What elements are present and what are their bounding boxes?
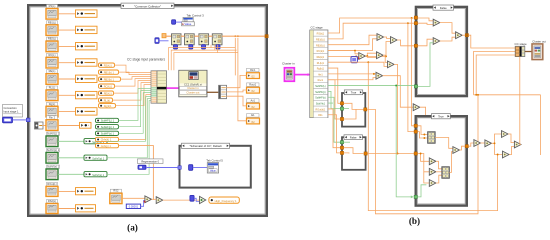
svg-text:RL(k)1: RL(k)1 bbox=[317, 62, 325, 65]
wire T5 up to CC bundle row3 bbox=[520, 57, 521, 145]
wire RS2 to compare bbox=[122, 197, 145, 199]
path constant node SubVI(s) 1 bbox=[84, 172, 107, 177]
terminal tab ctl bbox=[172, 20, 176, 24]
numeric control ROut(L) bbox=[47, 182, 58, 185]
boolean constant High_Frequency 1 bbox=[209, 197, 239, 203]
mult node D bbox=[377, 52, 384, 59]
conversion node row 3 bbox=[76, 43, 98, 50]
wire L2 out to add node bbox=[449, 152, 453, 173]
wire constant to compare bbox=[141, 200, 145, 206]
main orange wire to right edge tunnel bbox=[222, 35, 265, 37]
green wire inside upper frame bbox=[418, 43, 434, 87]
svg-text:RE(k)1: RE(k)1 bbox=[104, 91, 113, 95]
svg-text:Regeneration 0: Regeneration 0 bbox=[141, 159, 159, 163]
svg-text:SubVI(L) 1: SubVI(L) 1 bbox=[47, 132, 60, 136]
wire row5b to div C bbox=[356, 56, 359, 58]
wire RC(L) to conversion node bbox=[58, 62, 76, 64]
case structure big lower 'True' bbox=[416, 116, 467, 205]
svg-text:False: False bbox=[350, 135, 357, 139]
svg-text:RS(k)1: RS(k)1 bbox=[317, 33, 325, 36]
numeric control RB1(L) bbox=[47, 21, 58, 24]
svg-text:RL(L): RL(L) bbox=[49, 86, 56, 90]
wire CC1 cluster out bbox=[207, 91, 219, 93]
wire junction down to D lower input bbox=[367, 56, 376, 57]
mult node B bbox=[391, 37, 398, 44]
unbundle helper node bbox=[35, 122, 44, 129]
svg-text:RB1(L): RB1(L) bbox=[48, 20, 56, 24]
svg-text:Cluster out: Cluster out bbox=[186, 91, 199, 95]
numeric constant 0.00001 bbox=[126, 204, 140, 208]
svg-text:"Schematic of CC", Default: "Schematic of CC", Default bbox=[189, 144, 221, 148]
wire Chfe(k) 1 to bundle bbox=[119, 95, 152, 140]
wire L3 to out tunnel bbox=[460, 146, 466, 150]
wire RE(k)1 to bundle bbox=[114, 81, 152, 94]
numeric constant RB1(k) 1 bbox=[99, 70, 119, 74]
wire RS2(L) to conversion node bbox=[58, 208, 76, 210]
wire path constant to bundle bbox=[107, 97, 151, 142]
mult node Lc bbox=[429, 180, 436, 187]
svg-text:Value: Value bbox=[210, 170, 217, 173]
svg-text:Cluster in: Cluster in bbox=[282, 61, 295, 65]
green wire row13 stub bbox=[328, 102, 333, 104]
svg-text:I32: I32 bbox=[251, 106, 255, 109]
numeric indicator Rout1 bbox=[247, 83, 260, 86]
wire row3 to mult A bbox=[328, 35, 377, 44]
tunnel lower frame left 2 bbox=[414, 130, 417, 133]
inner case selector bbox=[182, 143, 230, 148]
tunnel green frame1 left bbox=[340, 107, 343, 110]
wire enum to case tunnel bbox=[13, 119, 27, 121]
svg-text:CC1 (SubVI).vi: CC1 (SubVI).vi bbox=[184, 82, 202, 86]
numeric indicator Rin2 bbox=[47, 116, 58, 119]
wire T1-T2 bbox=[481, 142, 485, 144]
svg-text:RS(k)1: RS(k)1 bbox=[104, 63, 113, 67]
svg-text:SubHF(L) 1: SubHF(L) 1 bbox=[101, 119, 115, 123]
svg-text:SubHF(s): SubHF(s) bbox=[315, 97, 325, 100]
conversion node row 4 bbox=[76, 59, 98, 66]
wire path constant to bundle bbox=[107, 101, 151, 175]
svg-text:SubHF(s) 1: SubHF(s) 1 bbox=[101, 132, 115, 136]
wire RS(L) to conversion node bbox=[58, 13, 76, 15]
wire out tunnel to CC bundle row1 bbox=[469, 35, 516, 48]
conversion node row 2 bbox=[76, 26, 98, 33]
wire branch to CC bundle row3 bbox=[476, 55, 515, 95]
svg-text:Rout1: Rout1 bbox=[249, 82, 256, 86]
wire Rg(k)1 to bundle bbox=[116, 85, 152, 106]
unbundle by name node bbox=[219, 85, 227, 98]
numeric constant RS(k)1 bbox=[99, 63, 115, 67]
numeric constant RC(k)1 bbox=[99, 84, 115, 88]
tunnel on right edge bbox=[265, 35, 268, 38]
svg-text:RC(L): RC(L) bbox=[49, 53, 56, 57]
mult node U2 bbox=[433, 38, 440, 45]
wire compare to select bbox=[163, 199, 200, 201]
wire between compare nodes bbox=[152, 198, 157, 200]
wire row2 up to upper frame tunnel2 bbox=[328, 23, 414, 39]
wire lone mult to frame top bbox=[420, 107, 426, 115]
wire RB2(k) 1 to bundle bbox=[121, 77, 152, 80]
svg-text:"Common Collector": "Common Collector" bbox=[134, 4, 161, 8]
tunnel green upper frame bbox=[414, 85, 417, 88]
wire out tunnel to chain T1 bbox=[469, 143, 474, 146]
numeric control Rg(L) bbox=[47, 102, 58, 105]
svg-text:Cob(p) 1: Cob(p) 1 bbox=[101, 144, 112, 148]
constant SubHF(L) 1 bbox=[96, 118, 119, 122]
wires inside frame1 bbox=[344, 103, 364, 109]
wire row7 to frame1 tunnel bbox=[328, 68, 341, 103]
wire SubHF(L) 1 to bundle bbox=[119, 89, 152, 121]
svg-text:High_Frequency 1: High_Frequency 1 bbox=[215, 199, 237, 203]
long wire row6 down to bottom bus bbox=[368, 62, 497, 210]
wire node chain bbox=[209, 35, 213, 37]
svg-text:(b): (b) bbox=[409, 216, 420, 226]
tunnel green frame2 bbox=[340, 141, 343, 144]
svg-text:SubVI(s) 1: SubVI(s) 1 bbox=[47, 165, 60, 169]
svg-text:SubVIs1: SubVIs1 bbox=[316, 103, 326, 106]
wire E out down to lower-frame tunnel3 bbox=[394, 64, 414, 153]
svg-text:RS2(L): RS2(L) bbox=[48, 199, 56, 203]
vertical wire bus to indicator Ai1 bbox=[238, 38, 247, 121]
green wire inside lower frame bbox=[418, 185, 427, 197]
wire path constant to bundle bbox=[107, 99, 151, 158]
conversion node row 6 bbox=[76, 91, 98, 98]
boolean terminal bbox=[190, 195, 194, 201]
label 'Connection Input stage 1' bbox=[3, 105, 23, 118]
svg-text:Rg(k)1: Rg(k)1 bbox=[317, 68, 325, 71]
wire T2 out split bbox=[492, 134, 502, 143]
numeric indicator Ai1 bbox=[247, 114, 260, 117]
path constant node SubVI(p) 1 bbox=[84, 155, 107, 160]
numeric control RS(L) bbox=[47, 5, 58, 8]
select node bbox=[200, 196, 206, 203]
conversion node row 7 bbox=[76, 108, 98, 115]
enum terminal Connection Input stage bbox=[3, 117, 13, 123]
numeric control RL(L) bbox=[47, 86, 58, 89]
function node 3 (array/convert) bbox=[199, 34, 209, 45]
svg-text:I32: I32 bbox=[251, 90, 255, 93]
compare node 2 bbox=[156, 197, 163, 204]
svg-text:Rb1: Rb1 bbox=[318, 114, 323, 117]
constant Chfe(k) 1 bbox=[96, 137, 119, 141]
svg-text:SubHF(p) 1: SubHF(p) 1 bbox=[101, 125, 115, 129]
tunnel lower frame left 1 bbox=[414, 124, 417, 127]
svg-text:False: False bbox=[440, 6, 447, 10]
vertical wire bus 2 bbox=[234, 38, 236, 75]
svg-text:Rg(L): Rg(L) bbox=[49, 102, 56, 106]
boolean terminal Regeneration bbox=[138, 165, 146, 169]
wire RL(k) to bundle bbox=[113, 83, 152, 101]
svg-text:RB1(k) 1: RB1(k) 1 bbox=[104, 70, 115, 74]
wire row4 to mult A lower bbox=[328, 39, 377, 51]
svg-text:Connection: Connection bbox=[4, 106, 18, 110]
wire C out to D bbox=[365, 53, 376, 56]
green wire row11 to frame1 bbox=[328, 91, 341, 108]
svg-text:Cluster out: Cluster out bbox=[532, 39, 546, 43]
case selector label 'Common Collector' bbox=[121, 3, 174, 8]
wire RE(L) to conversion node bbox=[58, 78, 76, 80]
path control SubVI(s) 1 bbox=[47, 165, 60, 168]
numeric control RS2(L) bbox=[47, 200, 58, 203]
wires unbundle to indicators bbox=[227, 75, 247, 87]
tunnel upper frame left 1 bbox=[414, 16, 417, 19]
svg-text:CC stage: CC stage bbox=[515, 42, 527, 46]
svg-text:SubVI(s) 1: SubVI(s) 1 bbox=[92, 174, 104, 177]
tunnel upper frame left 3 bbox=[414, 44, 417, 47]
svg-text:SubHF(L): SubHF(L) bbox=[315, 85, 326, 88]
tunnel orange frame2 upper bbox=[340, 146, 343, 149]
mult node Lb bbox=[429, 168, 436, 175]
panel (a) case structure frame 'Common Collector' bbox=[28, 5, 267, 216]
conversion node row 1 bbox=[76, 10, 98, 17]
mult node U1 bbox=[433, 19, 440, 26]
numeric constant RL(k) bbox=[99, 98, 113, 102]
svg-text:True: True bbox=[351, 91, 357, 95]
svg-text:ROut(L): ROut(L) bbox=[47, 182, 56, 186]
wire node chain bbox=[181, 35, 185, 37]
label Regeneration 0 bbox=[138, 159, 164, 164]
mult node T1 bbox=[474, 140, 481, 147]
wire SubVI(L) 1 bbox=[58, 140, 84, 142]
wire RB1(L) to conversion node bbox=[58, 29, 76, 31]
svg-text:Ai1: Ai1 bbox=[251, 113, 255, 117]
wire D out to E bbox=[383, 55, 387, 62]
wire constant Cob to triangle chain bbox=[119, 146, 154, 200]
mult node F bbox=[376, 72, 383, 79]
tunnel upper frame right out bbox=[465, 34, 468, 37]
conversion node row 5 bbox=[76, 75, 98, 82]
function node 1 (array/convert) bbox=[172, 34, 182, 45]
wire to Tab Control 5 bbox=[193, 167, 208, 169]
mult node T3 bbox=[502, 131, 509, 138]
wire bundle to Cluster out bbox=[525, 51, 532, 53]
numeric control RB2(L) bbox=[47, 37, 58, 40]
wire bundle to CC1 SubVI (cluster) bbox=[167, 87, 179, 89]
tunnel orange frame1 left upper bbox=[340, 102, 343, 105]
wire frame2 out to lower big frame bbox=[367, 153, 397, 155]
add node L3 bbox=[453, 147, 460, 154]
svg-text:RC(k)1: RC(k)1 bbox=[104, 84, 113, 88]
constant SubHF(p) 1 bbox=[96, 125, 119, 129]
numeric constant RB2(k) 1 bbox=[99, 77, 121, 81]
wire row6 to E and long wire 1 bbox=[328, 62, 388, 66]
green wire row10 to upper frame and lower frame bbox=[328, 85, 415, 87]
numeric indicator Av1 bbox=[247, 99, 260, 102]
case structure small 'False' bbox=[342, 137, 366, 170]
mult node A bbox=[377, 34, 384, 41]
svg-text:Input stage 1: Input stage 1 bbox=[4, 110, 20, 114]
terminal (enum) bbox=[155, 38, 159, 44]
wire cluster in to unbundle bbox=[294, 74, 310, 76]
svg-text:RB2(L): RB2(L) bbox=[48, 37, 56, 41]
wire ROut(L) to conversion node bbox=[58, 190, 76, 192]
svg-text:SubVI(p) 1: SubVI(p) 1 bbox=[47, 148, 60, 152]
svg-text:I32: I32 bbox=[251, 76, 255, 79]
wire SubHF(p) 1 to bundle bbox=[119, 91, 152, 127]
numeric constant RE(k)1 bbox=[99, 91, 114, 95]
inner case structure 'Schematic of CC' bbox=[180, 146, 251, 188]
wires T3/T4 to T5 bbox=[508, 134, 514, 143]
conversion node Rin2 bbox=[80, 122, 92, 128]
svg-text:I32: I32 bbox=[251, 121, 255, 124]
wire terminal to Value bbox=[176, 21, 182, 23]
wire RS(k)1 to bundle bbox=[115, 65, 152, 73]
tunnel frame1 right bbox=[364, 108, 367, 111]
svg-text:Rin 2: Rin 2 bbox=[49, 115, 56, 119]
svg-text:RS2: RS2 bbox=[113, 189, 119, 193]
path constant node SubVI(L) 1 bbox=[84, 139, 107, 144]
compare node 1 bbox=[145, 196, 152, 203]
bundle by name node (CC stage cluster) bbox=[151, 71, 157, 103]
svg-text:Tab Control 5: Tab Control 5 bbox=[206, 159, 223, 163]
add node U3 bbox=[456, 32, 463, 39]
case structure small 'True' bbox=[342, 93, 365, 127]
wire RC(k)1 to bundle bbox=[115, 79, 152, 87]
tunnel blue on inner frame bbox=[178, 166, 181, 169]
wire Regeneration to inner frame bbox=[146, 167, 178, 169]
wire RL(L) to conversion node bbox=[58, 94, 76, 96]
wire row8 to F bbox=[328, 73, 376, 75]
wire SubVI(p) 1 bbox=[58, 157, 84, 159]
subVI CC1 (SubVI) bbox=[179, 70, 207, 97]
wire SubHF(s) 1 to bundle bbox=[119, 93, 152, 134]
numeric control RE(L) bbox=[47, 70, 58, 73]
svg-text:SubHF(p): SubHF(p) bbox=[315, 91, 326, 94]
wires down-left from node chain bbox=[169, 48, 236, 71]
bundle node L2 bbox=[442, 167, 449, 178]
lone mult node above lower frame bbox=[413, 104, 420, 111]
svg-text:Value: Value bbox=[184, 22, 191, 26]
svg-text:RC(k)1: RC(k)1 bbox=[317, 50, 325, 53]
numeric conversion blue bbox=[351, 57, 357, 63]
svg-text:RL(k): RL(k) bbox=[104, 98, 110, 102]
bundle node L1 bbox=[428, 132, 435, 143]
constant Cob(p) 1 bbox=[96, 144, 119, 148]
case selector tunnel bbox=[26, 118, 30, 122]
mult node T4 bbox=[503, 151, 510, 158]
wire row9 to F lower bbox=[328, 78, 376, 80]
svg-text:CC stage input parameters: CC stage input parameters bbox=[127, 58, 165, 62]
svg-text:RE(L): RE(L) bbox=[49, 69, 56, 73]
wire frame1 out - long wire 2 bbox=[367, 95, 478, 214]
wire Rg(L) to conversion node bbox=[58, 111, 76, 113]
add node T5 bbox=[514, 141, 521, 148]
case structure big upper 'False' bbox=[416, 7, 467, 96]
wire A out to B bbox=[384, 37, 391, 39]
svg-text:SubVI(p) 1: SubVI(p) 1 bbox=[92, 158, 105, 161]
function node 4 (array/convert) bbox=[212, 34, 222, 45]
vertical wire right of frames bbox=[540, 95, 542, 155]
wire node chain bbox=[194, 35, 199, 37]
blue terminals under nodes bbox=[174, 45, 178, 49]
svg-text:RB2(k)1: RB2(k)1 bbox=[316, 44, 325, 47]
wire row14 to frame2 tunnel bbox=[328, 109, 341, 148]
bus wire below upper frame bbox=[474, 94, 541, 96]
svg-text:RB2(k) 1: RB2(k) 1 bbox=[104, 77, 115, 81]
svg-text:True: True bbox=[438, 115, 444, 119]
numeric control RS2 bbox=[110, 189, 121, 192]
svg-text:0.00001: 0.00001 bbox=[129, 205, 139, 209]
tab control terminal bbox=[183, 17, 193, 21]
wire F out to lone triangle bbox=[383, 76, 414, 108]
wire helper to indicator Rin2 bbox=[43, 125, 46, 127]
wire row9b to frame1 tunnel lower bbox=[328, 80, 341, 119]
svg-text:Tab Control 3: Tab Control 3 bbox=[187, 14, 205, 18]
wires inside upper frame bbox=[418, 18, 434, 21]
tunnel lower frame right out bbox=[465, 145, 468, 148]
wire into node chain bbox=[159, 40, 168, 42]
svg-text:(a): (a) bbox=[127, 223, 138, 233]
svg-text:CC stage: CC stage bbox=[311, 25, 323, 29]
tunnel lower frame left 3 bbox=[414, 152, 417, 155]
wire Rin2 to conversion node bbox=[58, 125, 80, 127]
mult node T2 bbox=[485, 140, 492, 147]
svg-text:RB1(k)1: RB1(k)1 bbox=[316, 38, 325, 41]
svg-text:RE(k)1: RE(k)1 bbox=[317, 56, 325, 59]
svg-text:Av1: Av1 bbox=[251, 98, 256, 102]
svg-text:RS(L): RS(L) bbox=[49, 4, 56, 8]
wire L1 out bbox=[435, 138, 453, 149]
branch wires down to lower frame tunnels bbox=[412, 18, 414, 126]
wire row4b to div C bbox=[328, 50, 355, 52]
wires inside lower frame to bundle node L1 bbox=[418, 126, 428, 135]
tunnel frame2 right bbox=[364, 152, 367, 155]
tunnel green lower frame bbox=[414, 195, 417, 198]
svg-text:Rg(k)1: Rg(k)1 bbox=[104, 104, 112, 108]
tunnel orange frame1 left lower bbox=[340, 117, 343, 120]
wire row5 to mult B lower bbox=[328, 42, 391, 57]
numeric control RC(L) bbox=[47, 53, 58, 56]
wire row15 to frame2 tunnel lower bbox=[328, 115, 341, 153]
conversion node RS2(L) bbox=[76, 205, 96, 212]
wires to bundle node L2 bbox=[436, 161, 442, 169]
wire boolean to select node bbox=[194, 198, 199, 201]
numeric constant Rg(k)1 bbox=[99, 104, 116, 108]
svg-text:Cluster in: Cluster in bbox=[187, 86, 199, 90]
wire SubVI(s) 1 bbox=[58, 173, 84, 175]
wires inside frame2 bbox=[344, 148, 364, 154]
property node Value bbox=[182, 22, 195, 26]
svg-text:hfe1: hfe1 bbox=[318, 73, 323, 76]
mult node E bbox=[388, 61, 395, 68]
wire U3 to out tunnel bbox=[462, 34, 465, 36]
svg-text:Rin1: Rin1 bbox=[250, 68, 256, 72]
terminal inside inner frame bbox=[189, 165, 193, 171]
svg-text:Rsc1: Rsc1 bbox=[318, 79, 324, 82]
function node 2 (array/convert) bbox=[185, 34, 195, 45]
wire RB2(L) to conversion node bbox=[58, 45, 76, 47]
wires tunnel3 to triangles bbox=[418, 154, 430, 162]
wire row1 up to upper frame tunnel1 bbox=[328, 18, 414, 33]
wire B out to tunnel3 bbox=[397, 40, 414, 46]
path control SubVI(L) 1 bbox=[47, 132, 60, 135]
numeric indicator Rin1 bbox=[247, 68, 260, 71]
conversion node ROut(L) bbox=[76, 188, 96, 195]
div node C bbox=[359, 53, 366, 60]
green wire row12 to frame2 bbox=[328, 97, 341, 142]
mult node La bbox=[429, 158, 436, 165]
svg-text:ROut(k)1: ROut(k)1 bbox=[316, 108, 326, 111]
wires U1/U2 to U3 bbox=[440, 23, 456, 34]
constant small orange bbox=[162, 34, 166, 38]
tab control 5 icon bbox=[207, 163, 218, 173]
tunnel upper frame left 2 bbox=[414, 22, 417, 25]
path control SubVI(p) 1 bbox=[47, 149, 60, 152]
constant SubHF(s) 1 bbox=[96, 131, 119, 135]
bundle by name CC stage bbox=[515, 46, 525, 56]
tunnel orange frame2 lower bbox=[340, 151, 343, 154]
wire RB1(k) 1 to bundle bbox=[119, 72, 152, 75]
